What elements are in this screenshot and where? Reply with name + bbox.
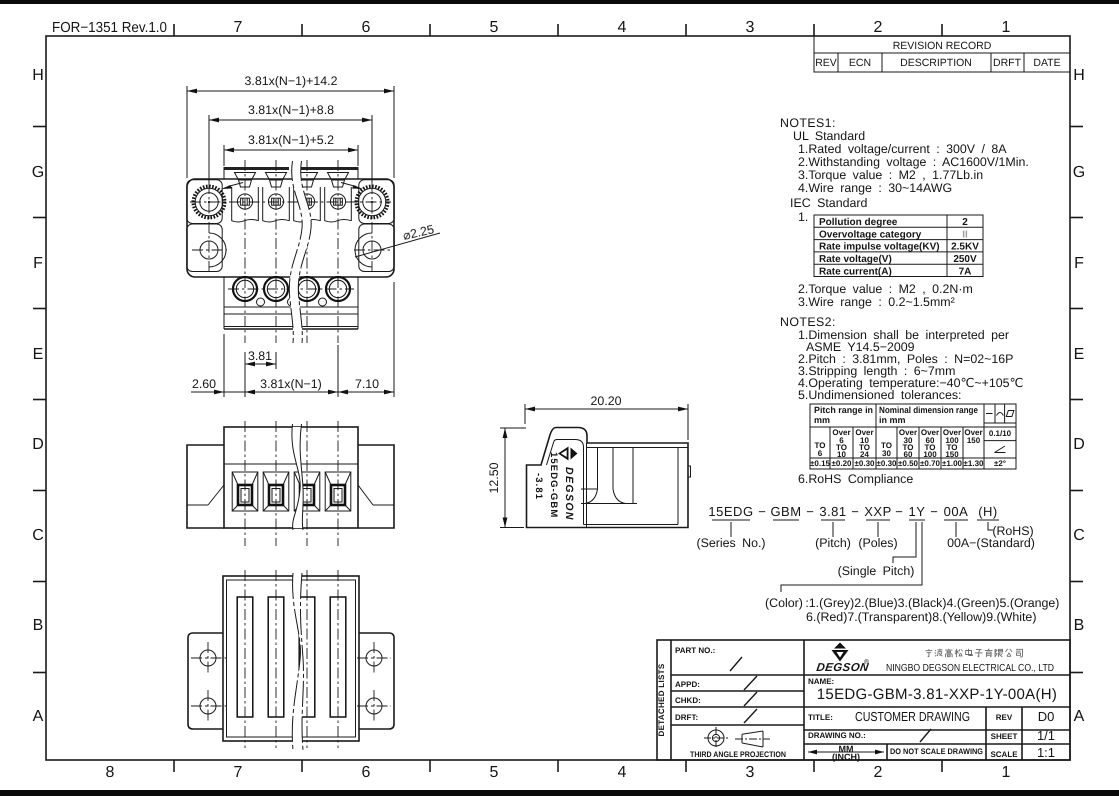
svg-text:(Color) :1.(Grey)2.(Blue)3.(Bl: (Color) :1.(Grey)2.(Blue)3.(Black)4.(Gre…: [765, 596, 1059, 610]
svg-text:±0.30: ±0.30: [877, 459, 898, 468]
svg-text:Rate voltage(V): Rate voltage(V): [819, 254, 892, 265]
svg-text:8: 8: [106, 764, 115, 781]
svg-text:1:1: 1:1: [1037, 745, 1055, 760]
svg-text:24: 24: [860, 450, 869, 459]
svg-text:B: B: [33, 617, 44, 634]
svg-text:1.Rated voltage/current : 3: 1.Rated voltage/current : 300V / 8A: [798, 142, 1007, 156]
svg-text:6.RoHS Compliance: 6.RoHS Compliance: [798, 472, 913, 486]
svg-text:A: A: [1074, 708, 1085, 725]
svg-text:7A: 7A: [959, 266, 972, 277]
svg-text:DEGSON: DEGSON: [816, 662, 870, 674]
svg-text:15EDG-GBM-3.81-XXP-1Y-00A(H): 15EDG-GBM-3.81-XXP-1Y-00A(H): [817, 686, 1057, 703]
svg-text:−: −: [930, 504, 938, 519]
svg-text:2: 2: [874, 19, 883, 36]
svg-text:REVISION RECORD: REVISION RECORD: [893, 40, 992, 52]
svg-text:F: F: [33, 255, 43, 272]
svg-text:2: 2: [874, 764, 883, 781]
svg-text:D: D: [1073, 436, 1085, 453]
svg-text:3.Torque value : M2 , 1.7: 3.Torque value : M2 , 1.77Lb.in: [798, 168, 983, 182]
svg-text:±2°: ±2°: [994, 459, 1006, 468]
svg-text:CUSTOMER DRAWING: CUSTOMER DRAWING: [855, 709, 970, 724]
svg-text:150: 150: [967, 436, 981, 445]
svg-text:2.60: 2.60: [192, 377, 216, 391]
svg-text:CHKD:: CHKD:: [675, 696, 701, 705]
svg-text:NOTES2:: NOTES2:: [780, 315, 836, 329]
svg-text:FOR−1351 Rev.1.0: FOR−1351 Rev.1.0: [52, 20, 167, 36]
svg-text:3.81x(N−1)+8.8: 3.81x(N−1)+8.8: [248, 103, 334, 117]
svg-text:6: 6: [362, 764, 371, 781]
svg-text:60: 60: [904, 450, 913, 459]
svg-text:−: −: [895, 504, 903, 519]
svg-text:±0.50: ±0.50: [898, 459, 919, 468]
svg-text:100: 100: [923, 450, 937, 459]
svg-text:10: 10: [837, 450, 846, 459]
svg-text:±0.20: ±0.20: [832, 459, 853, 468]
svg-text:NINGBO DEGSON ELECTRICAL CO.,: NINGBO DEGSON ELECTRICAL CO., LTD: [886, 663, 1054, 674]
svg-text:3.81x(N−1)+14.2: 3.81x(N−1)+14.2: [245, 74, 338, 88]
svg-text:Pollution degree: Pollution degree: [819, 217, 898, 228]
svg-text:DRFT:: DRFT:: [675, 713, 698, 722]
svg-text:250V: 250V: [953, 254, 977, 265]
svg-text:3.Wire range : 0.2~1.5mm²: 3.Wire range : 0.2~1.5mm²: [798, 295, 955, 309]
svg-text:00A−(Standard): 00A−(Standard): [947, 536, 1035, 550]
svg-text:1: 1: [1002, 19, 1011, 36]
svg-text:C: C: [1073, 527, 1085, 544]
svg-text:D0: D0: [1038, 709, 1055, 724]
svg-text:Rate current(A): Rate current(A): [819, 266, 892, 277]
svg-text:NAME:: NAME:: [808, 677, 834, 686]
svg-text:4: 4: [618, 19, 627, 36]
svg-text:±0.30: ±0.30: [855, 459, 876, 468]
svg-text:(Single Pitch): (Single Pitch): [838, 564, 915, 578]
svg-text:3.81x(N−1): 3.81x(N−1): [260, 377, 322, 391]
svg-text:3: 3: [746, 19, 755, 36]
svg-text:3.81x(N−1)+5.2: 3.81x(N−1)+5.2: [248, 133, 334, 147]
svg-text:7: 7: [234, 19, 243, 36]
svg-text:20.20: 20.20: [590, 394, 621, 408]
svg-text:DO NOT SCALE DRAWING: DO NOT SCALE DRAWING: [890, 747, 983, 756]
svg-text:(RoHS): (RoHS): [992, 524, 1033, 538]
svg-text:-3.81: -3.81: [533, 473, 544, 500]
svg-text:7.10: 7.10: [355, 377, 379, 391]
svg-text:3.81: 3.81: [819, 504, 846, 519]
svg-text:(Pitch): (Pitch): [815, 536, 851, 550]
svg-text:Pitch range in: Pitch range in: [814, 405, 873, 415]
svg-text:00A: 00A: [944, 504, 969, 519]
svg-text:−: −: [758, 504, 766, 519]
svg-text:Rate impulse voltage(KV): Rate impulse voltage(KV): [819, 242, 940, 253]
svg-text:IEC Standard: IEC Standard: [790, 196, 867, 210]
svg-text:B: B: [1074, 617, 1085, 634]
svg-text:XXP: XXP: [864, 504, 892, 519]
svg-text:3.81: 3.81: [248, 349, 272, 363]
svg-text:SHEET: SHEET: [991, 732, 1018, 741]
svg-text:PART NO.:: PART NO.:: [675, 646, 715, 655]
svg-text:Nominal dimension range: Nominal dimension range: [879, 405, 978, 415]
svg-text:H: H: [1073, 67, 1085, 84]
svg-text:ECN: ECN: [849, 57, 871, 69]
svg-text:2: 2: [962, 217, 968, 228]
svg-text:15EDG: 15EDG: [708, 504, 753, 519]
svg-text:®: ®: [864, 659, 870, 666]
svg-text:in mm: in mm: [879, 415, 906, 425]
svg-text:4.Wire range : 30~14AWG: 4.Wire range : 30~14AWG: [798, 181, 952, 195]
svg-text:A: A: [33, 708, 44, 725]
svg-text:F: F: [1074, 255, 1084, 272]
svg-text:DESCRIPTION: DESCRIPTION: [900, 57, 972, 69]
svg-text:UL Standard: UL Standard: [793, 129, 865, 143]
svg-text:±1.00: ±1.00: [942, 459, 963, 468]
svg-text:±1.30: ±1.30: [964, 459, 985, 468]
svg-text:DETACHED LISTS: DETACHED LISTS: [657, 663, 666, 736]
svg-text:H: H: [32, 67, 44, 84]
svg-text:5.Undimensioned tolerances:: 5.Undimensioned tolerances:: [798, 388, 962, 402]
svg-text:NOTES1:: NOTES1:: [780, 116, 836, 130]
svg-text:APPD:: APPD:: [675, 680, 700, 689]
svg-text:(Series No.): (Series No.): [696, 536, 765, 550]
svg-text:12.50: 12.50: [487, 462, 501, 493]
svg-text:5: 5: [490, 764, 499, 781]
svg-text:C: C: [32, 527, 44, 544]
svg-text:6.(Red)7.(Transparent)8.(Yello: 6.(Red)7.(Transparent)8.(Yellow)9.(White…: [806, 610, 1036, 624]
svg-text:TITLE:: TITLE:: [808, 713, 833, 722]
svg-text:II: II: [962, 229, 968, 240]
svg-text:150: 150: [945, 450, 959, 459]
svg-text:1.: 1.: [798, 210, 808, 224]
svg-text:±0.70: ±0.70: [920, 459, 941, 468]
svg-text:±0.15: ±0.15: [810, 459, 831, 468]
svg-text:(Poles): (Poles): [858, 536, 897, 550]
svg-text:0.1/10: 0.1/10: [989, 429, 1012, 438]
svg-text:3: 3: [746, 764, 755, 781]
svg-text:G: G: [1073, 164, 1085, 181]
svg-text:DEGSON: DEGSON: [563, 467, 575, 521]
svg-text:1/1: 1/1: [1037, 728, 1055, 743]
svg-text:THIRD ANGLE PROJECTION: THIRD ANGLE PROJECTION: [690, 750, 786, 759]
svg-text:30: 30: [882, 449, 891, 458]
svg-text:6: 6: [362, 19, 371, 36]
svg-text:DATE: DATE: [1033, 57, 1060, 69]
svg-text:−: −: [806, 504, 814, 519]
svg-text:G: G: [32, 164, 44, 181]
svg-text:E: E: [33, 346, 44, 363]
svg-text:Overvoltage category: Overvoltage category: [819, 229, 922, 240]
svg-text:DRAWING NO.:: DRAWING NO.:: [808, 731, 866, 740]
svg-text:2.Torque value : M2 , 0.2: 2.Torque value : M2 , 0.2N·m: [798, 282, 973, 296]
svg-text:5: 5: [490, 19, 499, 36]
svg-text:4: 4: [618, 764, 627, 781]
svg-text:E: E: [1074, 346, 1085, 363]
svg-text:REV: REV: [815, 57, 837, 69]
svg-text:DRFT: DRFT: [993, 57, 1022, 69]
svg-text:15EDG-GBM: 15EDG-GBM: [548, 452, 559, 518]
svg-text:mm: mm: [814, 415, 830, 425]
svg-text:(H): (H): [978, 504, 998, 519]
svg-text:D: D: [32, 436, 44, 453]
svg-text:1: 1: [1002, 764, 1011, 781]
svg-text:2.5KV: 2.5KV: [951, 242, 979, 253]
svg-text:7: 7: [234, 764, 243, 781]
svg-text:1Y: 1Y: [909, 504, 926, 519]
svg-text:(INCH): (INCH): [832, 752, 860, 762]
svg-text:6: 6: [818, 449, 823, 458]
svg-text:−: −: [851, 504, 859, 519]
svg-text:REV: REV: [996, 713, 1013, 722]
svg-text:2.Withstanding voltage : AC: 2.Withstanding voltage : AC1600V/1Min.: [798, 155, 1029, 169]
svg-text:SCALE: SCALE: [990, 750, 1018, 759]
svg-text:GBM: GBM: [770, 504, 801, 519]
